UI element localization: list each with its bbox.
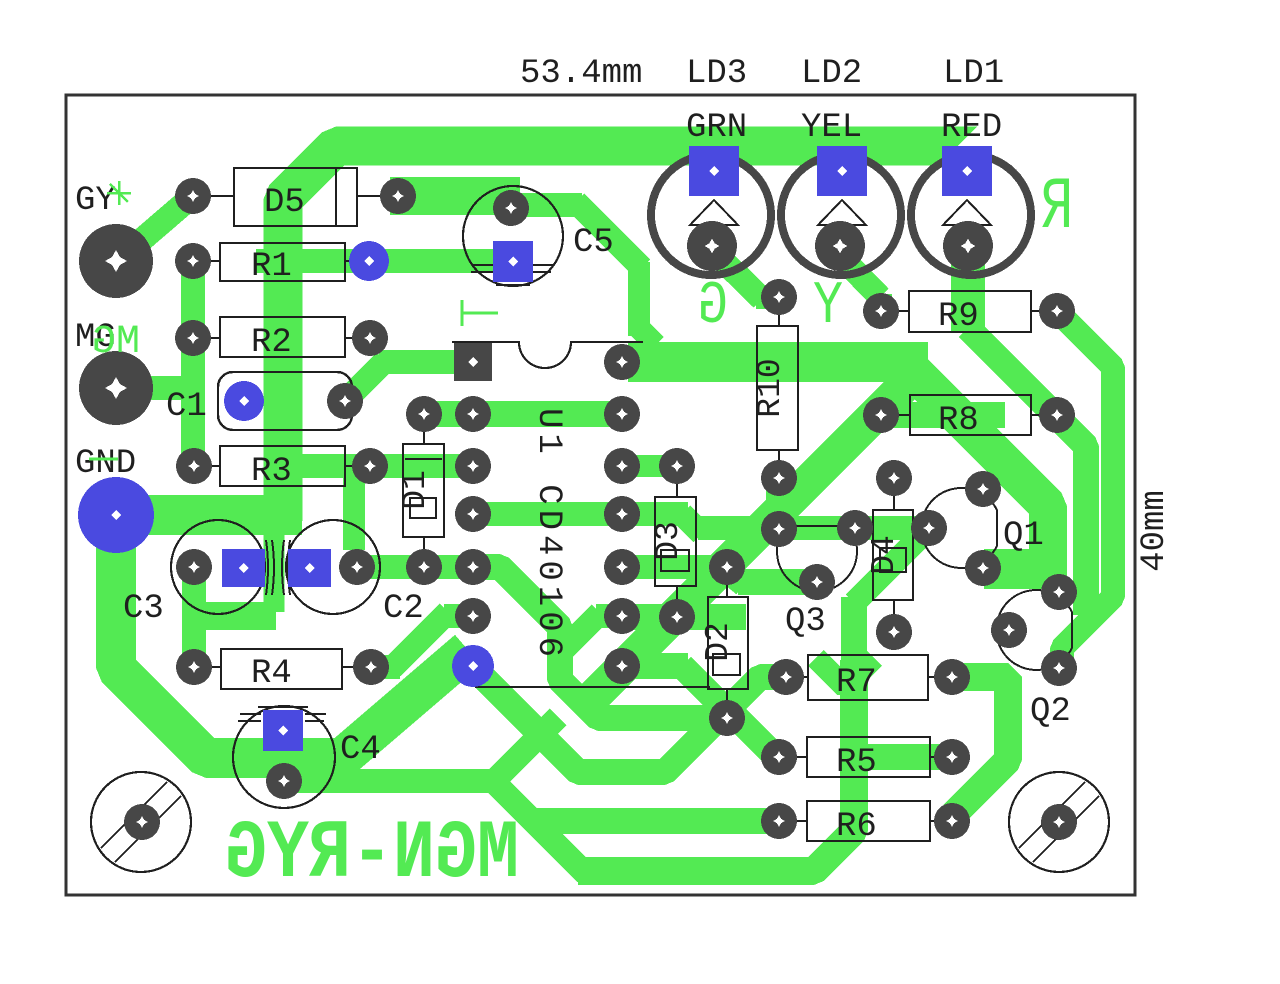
svg-text:RED: RED (941, 109, 1002, 147)
svg-text:LD2: LD2 (801, 55, 862, 93)
svg-text:D3: D3 (650, 521, 687, 561)
svg-text:YEL: YEL (801, 109, 862, 147)
svg-text:C1: C1 (166, 388, 207, 426)
svg-text:Q2: Q2 (1030, 693, 1071, 731)
svg-text:R4: R4 (251, 655, 292, 693)
svg-text:C5: C5 (573, 224, 614, 262)
svg-text:R9: R9 (938, 298, 979, 336)
svg-text:R2: R2 (251, 324, 292, 362)
svg-text:LD1: LD1 (943, 55, 1004, 93)
svg-text:U1 CD40106: U1 CD40106 (529, 408, 567, 662)
svg-text:53.4mm: 53.4mm (520, 55, 642, 93)
svg-text:D2: D2 (700, 622, 737, 662)
svg-text:C2: C2 (383, 590, 424, 628)
svg-text:MGN-RYG: MGN-RYG (225, 807, 519, 901)
svg-text:D1: D1 (397, 470, 434, 510)
svg-text:R8: R8 (938, 402, 979, 440)
svg-text:LD3: LD3 (686, 55, 747, 93)
svg-text:R3: R3 (251, 453, 292, 491)
svg-text:MG: MG (92, 320, 140, 365)
svg-text:R5: R5 (836, 744, 877, 782)
svg-text:Q3: Q3 (785, 603, 826, 641)
svg-text:Q1: Q1 (1003, 517, 1044, 555)
svg-text:G: G (698, 272, 728, 340)
svg-text:Y: Y (813, 272, 843, 340)
svg-text:GY: GY (75, 182, 116, 220)
svg-text:R10: R10 (752, 358, 789, 417)
svg-text:R: R (1041, 168, 1073, 250)
svg-text:40mm: 40mm (1136, 490, 1174, 572)
svg-text:D4: D4 (866, 535, 903, 575)
svg-text:D5: D5 (264, 184, 305, 222)
svg-text:GND: GND (75, 445, 136, 483)
svg-text:C4: C4 (340, 731, 381, 769)
svg-text:R7: R7 (836, 664, 877, 702)
svg-text:GRN: GRN (686, 109, 747, 147)
svg-text:R6: R6 (836, 808, 877, 846)
svg-text:R1: R1 (251, 248, 292, 286)
svg-text:C3: C3 (123, 590, 164, 628)
